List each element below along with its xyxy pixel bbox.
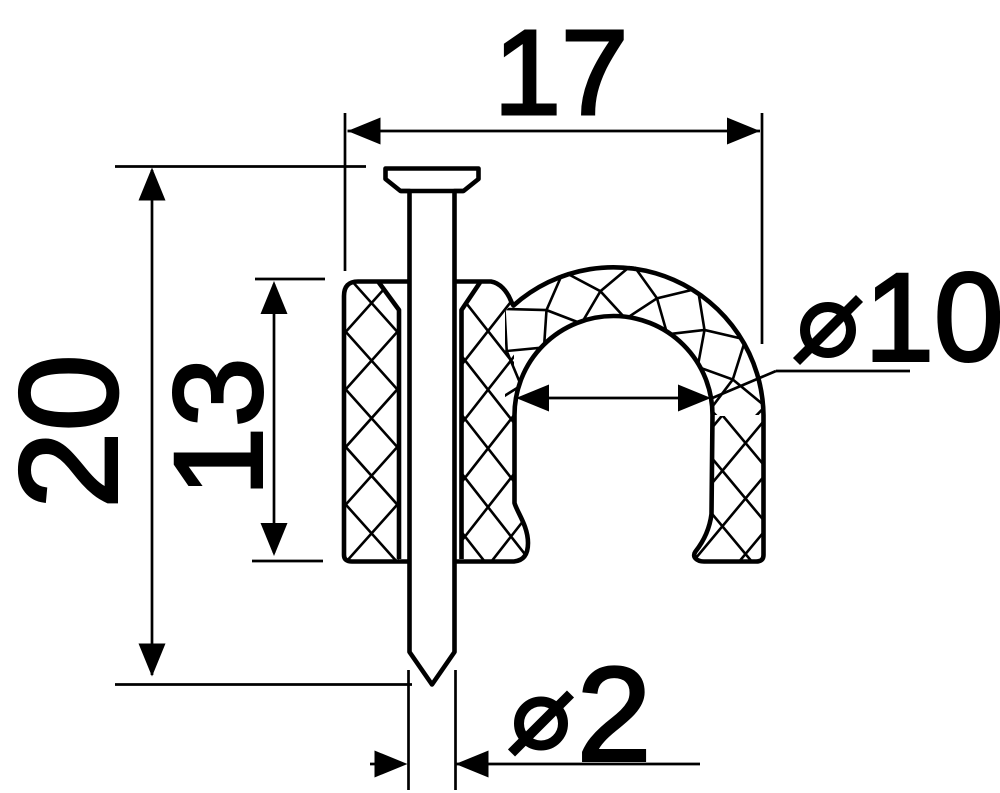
svg-text:17: 17 [494, 4, 629, 140]
svg-text:13: 13 [150, 357, 289, 496]
svg-text:20: 20 [0, 354, 147, 509]
svg-text:10: 10 [865, 249, 1000, 388]
svg-text:2: 2 [577, 641, 652, 790]
